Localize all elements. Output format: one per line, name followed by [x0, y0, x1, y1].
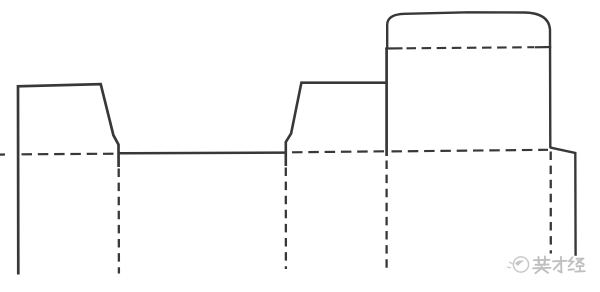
vertical fold extension x=118.8 (dashed): [118, 169, 121, 274]
left dust flap outline: [18, 84, 119, 274]
top cut edge of bottom-center panel: [119, 151, 287, 154]
glue tab step and right edge: [550, 148, 575, 256]
left shoulder tick: [385, 47, 402, 49]
watermark text: 才: [553, 257, 567, 273]
watermark text: 英: [533, 257, 551, 274]
middle dust flap outline: [286, 83, 387, 166]
watermark text: 经: [569, 257, 585, 271]
vertical fold extension x=285.8 (dashed): [285, 168, 287, 270]
fold line under left flap (dashed): [0, 153, 5, 155]
watermark logo: bird in circle: [507, 257, 529, 272]
right shoulder tick: [535, 46, 552, 48]
vertical fold extension x=550.7 (dashed): [550, 152, 552, 254]
fold line under rear panel (dashed): [392, 150, 549, 152]
rear panel left edge: [385, 48, 388, 156]
tuck flap fold line (dashed): [407, 47, 535, 48]
tuck flap with rounded top and rear panel right edge: [387, 12, 550, 148]
fold line under middle flap (dashed): [292, 151, 386, 152]
vertical fold extension x=386.6 (dashed): [385, 161, 387, 269]
